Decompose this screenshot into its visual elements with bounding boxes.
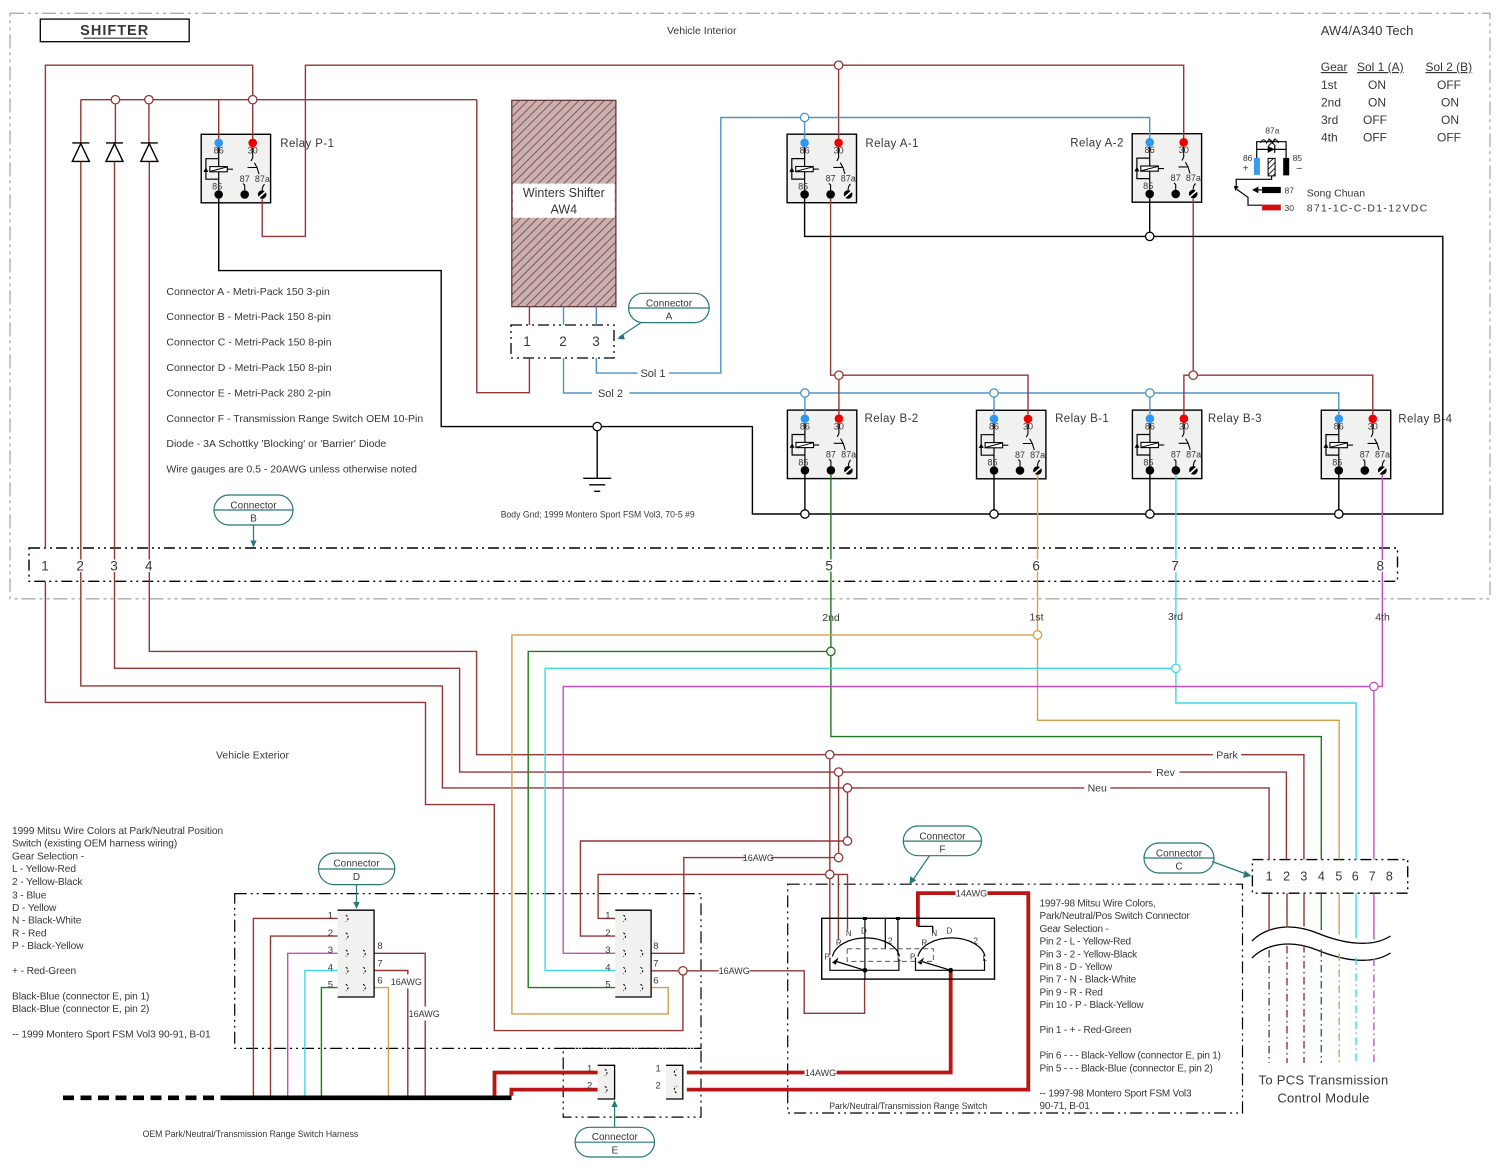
svg-text:Relay B-3: Relay B-3 bbox=[1208, 413, 1262, 425]
wire conn D pin8 16AWG to OEM harness bbox=[367, 953, 426, 1095]
wire conn D pin7 16AWG to OEM harness bbox=[367, 971, 408, 1096]
wire conn D pin4 to OEM harness bbox=[305, 971, 346, 1096]
svg-text:Neu: Neu bbox=[1088, 783, 1107, 795]
wire diode rail (node at y 99.7) bbox=[81, 99, 477, 101]
wire relay B-3 85 drop bbox=[1149, 475, 1151, 514]
svg-text:1st: 1st bbox=[1321, 78, 1338, 92]
svg-text:R: R bbox=[836, 939, 842, 948]
svg-text:2nd: 2nd bbox=[822, 612, 840, 624]
wire conn C pin6 tail bbox=[1355, 893, 1357, 938]
svg-text:Relay B-2: Relay B-2 bbox=[865, 413, 919, 425]
svg-text:D: D bbox=[353, 872, 360, 883]
left dial 2 line bbox=[884, 918, 886, 949]
svg-text:7: 7 bbox=[377, 958, 382, 969]
svg-text:6: 6 bbox=[1032, 559, 1040, 574]
OEM harness thick line (solid section) bbox=[229, 1096, 512, 1101]
svg-text:A: A bbox=[666, 312, 673, 323]
svg-text:90-71, B-01: 90-71, B-01 bbox=[1040, 1101, 1091, 1112]
svg-text:Gear Selection -: Gear Selection - bbox=[1040, 924, 1109, 935]
junction node 4th magenta bbox=[1370, 682, 1378, 690]
junction node Sol1 A-1 86 bbox=[800, 113, 808, 121]
svg-text:Relay A-1: Relay A-1 bbox=[865, 138, 918, 150]
right dial arc bbox=[918, 938, 985, 957]
svg-text:1: 1 bbox=[656, 1064, 661, 1075]
svg-text:Park/Neutral/Pos Switch Connec: Park/Neutral/Pos Switch Connector bbox=[1040, 911, 1191, 922]
svg-text:2: 2 bbox=[559, 334, 567, 349]
gear/solenoid table bbox=[1321, 60, 1472, 145]
wire conn B pin1 lower run to 14AWG node at conn F pin 7 bbox=[45, 581, 683, 1030]
svg-text:ON: ON bbox=[1368, 78, 1386, 92]
relay B-2 bbox=[787, 410, 856, 479]
svg-text:8: 8 bbox=[1377, 559, 1385, 574]
svg-text:6: 6 bbox=[1352, 870, 1359, 884]
oval Connector E bbox=[575, 1106, 654, 1158]
oval Connector D bbox=[319, 853, 395, 903]
wire conn C pin4 tail bbox=[1320, 893, 1322, 930]
conn B strip pin numbers bbox=[41, 559, 1384, 574]
junction node 85 bus B-4 bbox=[1335, 510, 1343, 518]
svg-text:16AWG: 16AWG bbox=[391, 977, 422, 987]
wire conn E-left pin2 thick red to harness bbox=[511, 1090, 601, 1096]
wire ground net: relay 85 bus bbox=[219, 199, 1443, 514]
svg-text:OFF: OFF bbox=[1437, 131, 1461, 145]
svg-text:3: 3 bbox=[1300, 870, 1307, 884]
connector E right body bbox=[656, 1064, 683, 1099]
svg-text:N - Black-White: N - Black-White bbox=[12, 916, 82, 927]
svg-text:Pin 8 - D - Yellow: Pin 8 - D - Yellow bbox=[1040, 962, 1114, 973]
junction node Sol2 B-1 86 bbox=[990, 389, 998, 397]
right dial pointer bbox=[918, 958, 925, 965]
svg-text:2: 2 bbox=[888, 937, 893, 946]
wire conn B pin1 riser to power bus and relay P-1 30 bbox=[45, 65, 252, 548]
svg-text:4: 4 bbox=[328, 962, 333, 973]
svg-text:Wire gauges are 0.5 - 20AWG un: Wire gauges are 0.5 - 20AWG unless other… bbox=[166, 464, 417, 476]
junction node Rev-F8 corner bbox=[834, 853, 842, 861]
wire conn A pin1 feed from diode rail bbox=[477, 100, 530, 393]
svg-text:14AWG: 14AWG bbox=[956, 888, 987, 898]
left dial L line bbox=[897, 918, 899, 955]
svg-text:D: D bbox=[861, 927, 867, 936]
left dial D line bbox=[864, 918, 866, 979]
wire conn C pin7 tail bbox=[1373, 893, 1375, 939]
junction node A-1 30 bbox=[834, 61, 842, 69]
svg-text:2: 2 bbox=[1283, 870, 1290, 884]
svg-text:4th: 4th bbox=[1375, 612, 1390, 624]
svg-text:Pin 9 - R - Red: Pin 9 - R - Red bbox=[1040, 987, 1103, 998]
notes list (1999 Mitsu wire colors) bbox=[12, 826, 223, 1041]
wire 1st: relay B-1 87a orange to conn F pin6 and conn C pin5 bbox=[512, 475, 1339, 1014]
junction node Neu-F2 corner bbox=[843, 837, 851, 845]
svg-text:Gear: Gear bbox=[1321, 60, 1348, 74]
wire conn D pin5 to OEM harness bbox=[321, 988, 345, 1096]
svg-text:P - Black-Yellow: P - Black-Yellow bbox=[12, 941, 84, 952]
conn A pin numbers bbox=[523, 334, 600, 349]
svg-text:Sol 2: Sol 2 bbox=[598, 388, 623, 400]
svg-text:4th: 4th bbox=[1321, 131, 1338, 145]
wire Neu branch to conn F pin 2 bbox=[580, 788, 847, 936]
relay A-1 bbox=[787, 134, 856, 203]
svg-text:ON: ON bbox=[1441, 96, 1459, 110]
OEM harness thick line (dashed section) bbox=[63, 1096, 232, 1101]
svg-text:Connector D - Metri-Pack 150 8: Connector D - Metri-Pack 150 8-pin bbox=[166, 362, 331, 374]
svg-text:Gear Selection -: Gear Selection - bbox=[12, 851, 84, 862]
svg-text:Pin 3 - 2 - Yellow-Black: Pin 3 - 2 - Yellow-Black bbox=[1040, 949, 1139, 960]
svg-text:4: 4 bbox=[605, 962, 610, 973]
wire 3rd: relay B-3 87 cyan to conn F pin4 and conn C pin6 bbox=[545, 475, 1356, 971]
svg-text:871-1C-C-D1-12VDC: 871-1C-C-D1-12VDC bbox=[1307, 203, 1429, 215]
svg-text:Diode - 3A Schottky 'Blocking': Diode - 3A Schottky 'Blocking' or 'Barri… bbox=[166, 438, 386, 450]
svg-text:16AWG: 16AWG bbox=[719, 966, 750, 976]
junction node 85 bus B-3 bbox=[1146, 510, 1154, 518]
wire conn B pin3 through diode D2 to Rev rail, to conn C pin2 bbox=[115, 161, 1287, 859]
wire conn D pin6 to OEM harness bbox=[367, 988, 389, 1096]
wire relay B-4 85 drop bbox=[1338, 475, 1340, 514]
connector A 3-pin box bbox=[511, 325, 614, 358]
junction node Park rail bbox=[826, 751, 834, 759]
oval Connector A bbox=[620, 293, 710, 337]
svg-text:6: 6 bbox=[653, 976, 658, 987]
connector C 8-pin box bbox=[1252, 860, 1407, 894]
left dial arc bbox=[833, 938, 900, 957]
SHIFTER title box bbox=[40, 19, 189, 42]
svg-text:86: 86 bbox=[1243, 153, 1253, 163]
svg-text:6: 6 bbox=[377, 976, 382, 987]
svg-text:To PCS Transmission: To PCS Transmission bbox=[1259, 1073, 1389, 1088]
svg-text:Connector A - Metri-Pack 150 3: Connector A - Metri-Pack 150 3-pin bbox=[166, 286, 330, 298]
wire shifter to conn A pin1 bbox=[528, 307, 530, 325]
svg-text:16AWG: 16AWG bbox=[409, 1009, 440, 1019]
svg-text:P: P bbox=[825, 953, 830, 962]
wire conn C pin2 tail bbox=[1286, 893, 1288, 927]
connector F dashed region bbox=[788, 884, 1243, 1113]
junction node 85 bus B-1 bbox=[990, 510, 998, 518]
wire 14AWG conn E-right pin1 to switch wiper bbox=[687, 970, 951, 1072]
svg-text:7: 7 bbox=[653, 958, 658, 969]
svg-text:B: B bbox=[250, 514, 257, 525]
wire conn C pin1 tail bbox=[1268, 893, 1270, 931]
svg-text:R: R bbox=[921, 939, 927, 948]
svg-text:2: 2 bbox=[974, 937, 979, 946]
svg-text:Switch (existing OEM harness w: Switch (existing OEM harness wiring) bbox=[12, 839, 177, 850]
connector E dashed region bbox=[563, 1048, 701, 1117]
svg-text:87a: 87a bbox=[1265, 126, 1279, 136]
svg-text:5: 5 bbox=[825, 559, 833, 574]
svg-text:Connector F - Transmission Ran: Connector F - Transmission Range Switch … bbox=[166, 413, 423, 425]
junction node diode rail x115 bbox=[111, 96, 119, 104]
junction node Sol2 B-3 86 bbox=[1146, 389, 1154, 397]
svg-text:L: L bbox=[983, 954, 988, 963]
svg-text:2 - Yellow-Black: 2 - Yellow-Black bbox=[12, 877, 83, 888]
svg-text:Connector: Connector bbox=[592, 1132, 639, 1143]
notes list (1997-98 Mitsu wire colors) bbox=[1040, 899, 1221, 1113]
svg-text:E: E bbox=[611, 1146, 618, 1157]
junction node 85 bus B-2 bbox=[801, 510, 809, 518]
svg-text:1: 1 bbox=[587, 1064, 592, 1075]
svg-text:3rd: 3rd bbox=[1321, 113, 1338, 127]
svg-text:1999 Mitsu Wire Colors at Par: 1999 Mitsu Wire Colors at Park/Neutral P… bbox=[12, 826, 223, 837]
svg-text:16AWG: 16AWG bbox=[743, 853, 774, 863]
wire relay A-1 30 drop bbox=[838, 65, 840, 138]
svg-text:87: 87 bbox=[1285, 186, 1295, 196]
Winters Shifter AW4 hatched box bbox=[512, 100, 616, 306]
wire Park junction to switch R and N terminals bbox=[830, 874, 848, 939]
wire diode D2 cathode drop bbox=[114, 100, 117, 143]
svg-text:Relay P-1: Relay P-1 bbox=[280, 138, 334, 150]
wire relay B-1 85 drop bbox=[993, 475, 995, 514]
diode D1 (conn B pin2) bbox=[72, 143, 89, 162]
notes list (connectors) bbox=[166, 286, 423, 476]
svg-text:2nd: 2nd bbox=[1321, 96, 1341, 110]
wire Park junction to conn F pin 1 bbox=[598, 874, 830, 918]
svg-text:Connector E - Metri-Pack 280 2: Connector E - Metri-Pack 280 2-pin bbox=[166, 387, 331, 399]
svg-text:Park: Park bbox=[1216, 750, 1238, 762]
diode D3 (conn B pin4) bbox=[141, 143, 158, 162]
svg-text:Connector: Connector bbox=[646, 299, 693, 310]
svg-text:Winters Shifter: Winters Shifter bbox=[523, 186, 605, 200]
wire Sol 2 from conn A pin2 to relays B 86 rail bbox=[564, 358, 1339, 414]
wire relay A-2 85 drop bbox=[1149, 198, 1151, 236]
svg-text:N: N bbox=[846, 929, 852, 938]
Song Chuan relay pinout drawing bbox=[1234, 126, 1429, 215]
svg-text:OFF: OFF bbox=[1363, 113, 1387, 127]
vehicle interior dash-dot border bbox=[10, 13, 1490, 599]
oval Connector C bbox=[1144, 843, 1248, 875]
svg-text:OFF: OFF bbox=[1363, 131, 1387, 145]
svg-text:Pin 5 - - - Black-Blue (connec: Pin 5 - - - Black-Blue (connector E, pin… bbox=[1040, 1064, 1213, 1075]
svg-text:7: 7 bbox=[1171, 559, 1179, 574]
junction node A-2 85 bbox=[1146, 232, 1154, 240]
relay A-2 bbox=[1132, 134, 1201, 203]
svg-text:1: 1 bbox=[1266, 870, 1273, 884]
svg-text:Connector: Connector bbox=[230, 501, 277, 512]
wire Sol 1 from conn A pin3 to relays A-1/A-2 86 bbox=[596, 118, 1149, 374]
junction node conn F pin7 14AWG bbox=[679, 967, 687, 975]
left dial pointer bbox=[832, 958, 839, 965]
svg-text:Connector: Connector bbox=[1156, 849, 1203, 860]
relay B-3 bbox=[1132, 410, 1201, 479]
svg-text:Vehicle Exterior: Vehicle Exterior bbox=[216, 750, 289, 762]
svg-text:ON: ON bbox=[1441, 113, 1459, 127]
svg-text:1997-98 Mitsu Wire Colors,: 1997-98 Mitsu Wire Colors, bbox=[1040, 899, 1156, 910]
svg-text:D - Yellow: D - Yellow bbox=[12, 903, 57, 914]
svg-text:Sol 1: Sol 1 bbox=[640, 368, 665, 380]
svg-text:1st: 1st bbox=[1029, 612, 1043, 624]
oval Connector B bbox=[214, 495, 293, 542]
svg-text:ON: ON bbox=[1368, 96, 1386, 110]
svg-text:3: 3 bbox=[605, 945, 610, 956]
svg-text:Connector B - Metri-Pack 150 8: Connector B - Metri-Pack 150 8-pin bbox=[166, 311, 331, 323]
svg-text:3rd: 3rd bbox=[1168, 611, 1183, 623]
oval Connector F bbox=[903, 826, 981, 879]
wire relay P-1 86 tap from diode rail bbox=[218, 100, 220, 139]
svg-text:OEM Park/Neutral/Transmission: OEM Park/Neutral/Transmission Range Swit… bbox=[143, 1129, 359, 1140]
svg-text:5: 5 bbox=[1335, 870, 1342, 884]
svg-text:+: + bbox=[1243, 164, 1249, 175]
svg-text:AW4/A340 Tech: AW4/A340 Tech bbox=[1321, 23, 1414, 38]
svg-text:Sol 2 (B): Sol 2 (B) bbox=[1426, 60, 1473, 74]
svg-text:3 - Blue: 3 - Blue bbox=[12, 890, 47, 901]
svg-text:Connector C - Metri-Pack 150 8: Connector C - Metri-Pack 150 8-pin bbox=[166, 337, 331, 349]
connector B strip (8-pin) bbox=[29, 548, 1398, 581]
svg-text:1: 1 bbox=[41, 559, 49, 574]
svg-text:5: 5 bbox=[328, 980, 333, 991]
wire 14AWG conn E-right pin2 to switch N terminal bbox=[687, 893, 1029, 1090]
svg-text:Relay A-2: Relay A-2 bbox=[1070, 138, 1123, 150]
svg-text:L - Yellow-Red: L - Yellow-Red bbox=[12, 864, 76, 875]
svg-text:Relay B-4: Relay B-4 bbox=[1398, 414, 1452, 426]
wire 16AWG node to park/neutral switch common bbox=[683, 971, 865, 1014]
wire conn C pin3 tail bbox=[1303, 893, 1305, 926]
svg-text:1: 1 bbox=[523, 334, 531, 349]
svg-text:-- 1999 Montero Sport FSM Vol3: -- 1999 Montero Sport FSM Vol3 90-91, B-… bbox=[12, 1030, 211, 1041]
junction node 3rd cyan bbox=[1172, 664, 1180, 672]
junction node A-2 87a bus bbox=[1189, 371, 1197, 379]
svg-text:3: 3 bbox=[110, 559, 118, 574]
wire black elbow 14AWG into right dial N bbox=[918, 926, 933, 932]
relay B-1 bbox=[977, 410, 1046, 479]
relay B-4 bbox=[1321, 410, 1390, 479]
wire conn D pin2 to OEM harness bbox=[271, 936, 346, 1096]
wire relay A-2 87a to relays B-3/B-4 30 bbox=[1184, 198, 1373, 414]
svg-text:85: 85 bbox=[1293, 153, 1303, 163]
left dial bottom bar bbox=[830, 958, 899, 971]
wire conn B pin2 through diode D1 to Neu rail, to conn C pin1 bbox=[81, 161, 1269, 859]
svg-text:N: N bbox=[931, 929, 937, 938]
wire 4th: relay B-4 87a magenta to conn F pin3 and conn C pin7 bbox=[563, 475, 1382, 954]
svg-text:30: 30 bbox=[1285, 203, 1295, 213]
svg-text:C: C bbox=[1175, 862, 1182, 873]
junction node Park switch feed bbox=[826, 870, 834, 878]
svg-text:4: 4 bbox=[145, 559, 153, 574]
svg-text:OFF: OFF bbox=[1437, 78, 1461, 92]
svg-text:2: 2 bbox=[605, 928, 610, 939]
svg-text:Connector: Connector bbox=[333, 859, 380, 870]
svg-text:7: 7 bbox=[1369, 870, 1376, 884]
junction node 2nd green bbox=[827, 647, 835, 655]
svg-text:Song Chuan: Song Chuan bbox=[1307, 188, 1366, 200]
svg-text:1: 1 bbox=[328, 910, 333, 921]
svg-text:Pin 6 - - - Black-Yellow (conn: Pin 6 - - - Black-Yellow (connector E, p… bbox=[1040, 1051, 1221, 1062]
wire conn B pin4 through diode D3 to Park rail, to conn C pin3 bbox=[149, 161, 1304, 859]
svg-text:D: D bbox=[947, 927, 953, 936]
connector E left body bbox=[587, 1064, 615, 1099]
wire 2nd: relay B-2 87 green to conn F pin5 and conn C pin4 bbox=[528, 475, 1321, 988]
junction node Rev rail bbox=[834, 768, 842, 776]
svg-text:AW4: AW4 bbox=[550, 203, 577, 217]
ground body gnd symbol bbox=[583, 431, 611, 491]
dial selector dashed range box bbox=[847, 949, 933, 962]
wire Park junction into switch P terminal bbox=[829, 874, 831, 954]
connector D dashed region bbox=[235, 894, 701, 1049]
junction node Neu rail bbox=[843, 784, 851, 792]
svg-text:Black-Blue (connector E, pin 1: Black-Blue (connector E, pin 1) bbox=[12, 992, 149, 1003]
svg-text:2: 2 bbox=[587, 1081, 592, 1092]
svg-text:+ - Red-Green: + - Red-Green bbox=[12, 966, 76, 977]
svg-text:Park/Neutral/Transmission Rang: Park/Neutral/Transmission Range Switch bbox=[829, 1101, 987, 1112]
wire node to conn F pin 7 bbox=[646, 970, 683, 972]
connector C wave break lines bbox=[1252, 927, 1391, 943]
svg-text:2: 2 bbox=[328, 928, 333, 939]
junction node P-1 30 bbox=[249, 96, 257, 104]
svg-text:F: F bbox=[939, 845, 945, 856]
wire conn C pin5 tail bbox=[1338, 893, 1340, 934]
wire relay A-1 87 to relays B-2/B-1 30 bbox=[831, 199, 1028, 415]
wire conn D pin1 to OEM harness bbox=[253, 918, 345, 1095]
park/neutral switch box bbox=[822, 917, 995, 979]
svg-text:Body Gnd; 1999 Montero Sport F: Body Gnd; 1999 Montero Sport FSM Vol3, 7… bbox=[501, 509, 695, 520]
svg-text:5: 5 bbox=[605, 980, 610, 991]
svg-text:Vehicle Interior: Vehicle Interior bbox=[667, 25, 737, 37]
conn C pin numbers bbox=[1266, 870, 1393, 884]
svg-text:Sol 1 (A): Sol 1 (A) bbox=[1357, 60, 1404, 74]
wire Park branch down to switch junction bbox=[829, 755, 831, 875]
svg-text:Black-Blue (connector E, pin 2: Black-Blue (connector E, pin 2) bbox=[12, 1004, 149, 1015]
connector D body bbox=[328, 910, 383, 997]
svg-text:Pin 2 - L - Yellow-Red: Pin 2 - L - Yellow-Red bbox=[1040, 937, 1131, 948]
wire diode D1 cathode drop bbox=[80, 100, 82, 143]
svg-text:3: 3 bbox=[328, 945, 333, 956]
wire conn D pin3 to OEM harness bbox=[288, 953, 346, 1095]
svg-text:SHIFTER: SHIFTER bbox=[80, 23, 149, 39]
junction node ground body bbox=[593, 422, 601, 430]
svg-text:8: 8 bbox=[653, 941, 658, 952]
svg-text:1: 1 bbox=[605, 910, 610, 921]
wire relay B-2 85 drop bbox=[804, 475, 806, 514]
svg-text:2: 2 bbox=[656, 1081, 661, 1092]
svg-text:2: 2 bbox=[76, 559, 84, 574]
junction node Sol2 B-2 86 bbox=[801, 389, 809, 397]
right dial bottom bar bbox=[916, 958, 985, 971]
diode D2 (conn B pin3) bbox=[106, 143, 123, 162]
svg-text:8: 8 bbox=[377, 941, 382, 952]
junction node 1st orange bbox=[1033, 631, 1041, 639]
wire Rev branch 16AWG to conn F pin 8 bbox=[646, 772, 839, 953]
wire relay P-1 87a to switched bus feeding relays A-1 30 and A-2 30 bbox=[262, 65, 1183, 236]
relay P-1 bbox=[201, 134, 270, 203]
svg-text:Relay B-1: Relay B-1 bbox=[1055, 413, 1109, 425]
svg-text:P: P bbox=[910, 953, 915, 962]
wire shifter to conn A pin2 bbox=[563, 307, 565, 325]
svg-text:Pin 1 - + - Red-Green: Pin 1 - + - Red-Green bbox=[1040, 1025, 1132, 1036]
svg-text:Pin 10 - P - Black-Yellow: Pin 10 - P - Black-Yellow bbox=[1040, 1000, 1145, 1011]
svg-text:8: 8 bbox=[1386, 870, 1393, 884]
connector F body bbox=[605, 910, 658, 997]
wire diode D3 cathode drop bbox=[148, 100, 150, 143]
svg-text:Rev: Rev bbox=[1156, 767, 1175, 779]
svg-text:-- 1997-98 Montero Sport FSM V: -- 1997-98 Montero Sport FSM Vol3 bbox=[1040, 1089, 1192, 1100]
svg-text:14AWG: 14AWG bbox=[805, 1068, 836, 1078]
svg-text:4: 4 bbox=[1318, 870, 1325, 884]
svg-text:Control Module: Control Module bbox=[1277, 1091, 1369, 1106]
svg-text:Connector: Connector bbox=[919, 832, 966, 843]
junction node diode rail x149 bbox=[145, 96, 153, 104]
wire conn E-left pin1 thick red to harness bbox=[495, 1073, 602, 1096]
svg-text:–: – bbox=[1297, 163, 1303, 174]
junction node A-1 87 bus bbox=[835, 371, 843, 379]
svg-text:Pin 7 - N - Black-White: Pin 7 - N - Black-White bbox=[1040, 975, 1137, 986]
wire shifter to conn A pin3 bbox=[595, 307, 597, 325]
svg-text:R - Red: R - Red bbox=[12, 928, 47, 939]
svg-text:3: 3 bbox=[592, 334, 600, 349]
